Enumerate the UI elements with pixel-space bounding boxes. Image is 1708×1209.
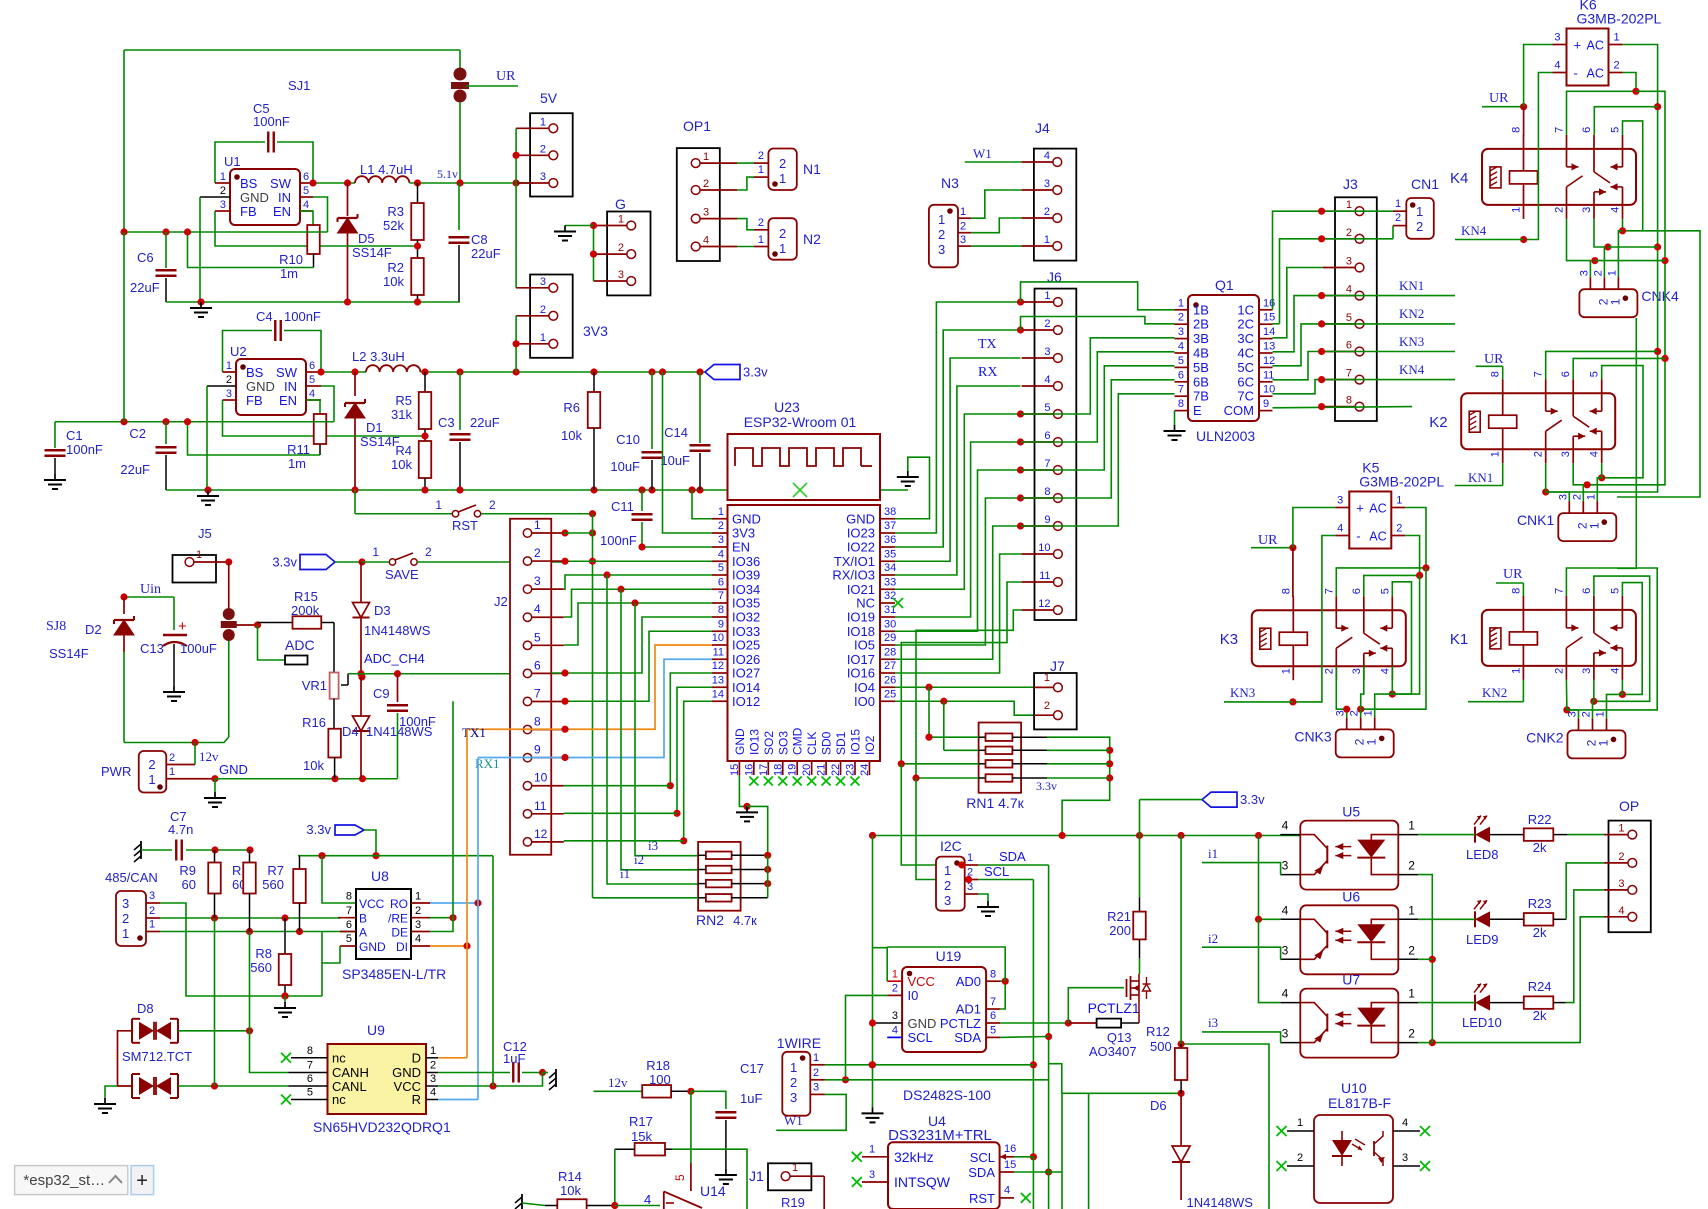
LED10 indicator	[1475, 995, 1490, 1011]
svg-text:3: 3	[618, 269, 624, 281]
wire K3 pin3 to CNK3.2	[1361, 666, 1364, 717]
Q1 pin 12 5C	[1259, 366, 1273, 368]
J6 pin 3	[1054, 354, 1063, 363]
svg-text:Uin: Uin	[140, 582, 161, 597]
diode D2 SS14F vertical	[123, 597, 125, 614]
svg-text:3: 3	[790, 1090, 797, 1105]
wire J6.1 to Q1.1B and left bus	[1021, 282, 1175, 310]
D8 top row to CANH	[178, 1030, 250, 1032]
svg-text:1: 1	[435, 498, 442, 512]
U9 pin 7 CANH	[289, 1072, 328, 1074]
svg-text:SW: SW	[276, 365, 298, 380]
svg-text:1: 1	[1044, 290, 1050, 302]
U23 pin 24 IO2	[868, 761, 870, 775]
U23 pin 36 IO22	[880, 546, 895, 548]
svg-text:4: 4	[1337, 523, 1343, 535]
left rail from top	[123, 232, 125, 422]
U23 pin 38 GND	[880, 518, 895, 520]
svg-text:2: 2	[1346, 227, 1352, 239]
svg-text:SS14F: SS14F	[49, 646, 89, 661]
svg-text:2: 2	[169, 752, 175, 764]
svg-text:4C: 4C	[1237, 346, 1254, 361]
wire K2 pin8 to UR	[1502, 366, 1504, 379]
CNK1 pin 2	[1582, 501, 1584, 513]
svg-text:IO17: IO17	[847, 652, 875, 667]
wire U8 /RE DE tie	[430, 917, 453, 919]
svg-text:1: 1	[1395, 198, 1401, 210]
svg-text:1: 1	[122, 926, 129, 941]
svg-text:EN: EN	[273, 204, 291, 219]
svg-text:3: 3	[1178, 326, 1184, 338]
wire K5 pin4 to KN3	[1293, 536, 1335, 702]
svg-text:2C: 2C	[1237, 317, 1254, 332]
svg-text:3: 3	[703, 207, 709, 219]
svg-text:1: 1	[1490, 451, 1502, 457]
U8 pin 2 /RE	[411, 917, 430, 919]
wire IO0 to J7.2 and RN1	[895, 701, 1034, 715]
svg-text:i1: i1	[1208, 846, 1218, 861]
U23 pin 29 IO5	[880, 644, 895, 646]
svg-text:1: 1	[1396, 495, 1402, 507]
wire K2 pin6 loop to CNK1.2	[1573, 358, 1665, 379]
ground at G connector	[565, 225, 594, 227]
J2 pin 1	[523, 529, 531, 537]
J6 pin 7	[1054, 466, 1063, 475]
K3 coil pin 1	[1292, 645, 1294, 680]
capacitor C10 10uF	[651, 372, 653, 449]
wire J6.5 to Q1.3B	[1021, 338, 1175, 414]
wire IO21 to J6.5	[895, 414, 1021, 589]
wire U23 GND38 to ground	[895, 457, 930, 519]
svg-text:2: 2	[489, 498, 496, 512]
U2 pin 1 BS	[223, 371, 237, 373]
K3 contact pins 6 3	[1363, 596, 1365, 633]
resistor R21 200	[1139, 836, 1141, 898]
485CAN pin 3	[146, 902, 160, 904]
svg-text:3: 3	[122, 896, 129, 911]
svg-text:4: 4	[1346, 284, 1352, 296]
svg-text:22uF: 22uF	[470, 415, 500, 430]
J6 pin 6	[1054, 438, 1063, 447]
svg-text:52k: 52k	[383, 218, 404, 233]
svg-text:UR: UR	[496, 69, 516, 84]
svg-text:1: 1	[540, 116, 546, 128]
K2 coil pin 1	[1502, 428, 1504, 463]
svg-text:500: 500	[1150, 1039, 1172, 1054]
svg-text:1: 1	[944, 863, 951, 878]
U9 pin 5 nc	[281, 1095, 291, 1105]
Q1 pin 3 3B	[1175, 338, 1189, 340]
svg-text:IN: IN	[284, 379, 297, 394]
1WIRE pin 3	[810, 1093, 825, 1095]
U8 pin 7 B	[338, 917, 356, 919]
wire gnd line to U8 GND	[321, 932, 323, 997]
svg-text:3V3: 3V3	[583, 323, 608, 339]
K2 contact pins 6 3	[1572, 379, 1574, 416]
svg-text:KN1: KN1	[1399, 278, 1424, 293]
svg-text:8: 8	[1346, 395, 1352, 407]
svg-text:2: 2	[148, 757, 155, 772]
svg-text:2: 2	[226, 374, 232, 386]
svg-text:2: 2	[1553, 668, 1565, 674]
svg-text:IO5: IO5	[854, 638, 875, 653]
U9 pin 4 R	[426, 1099, 438, 1101]
svg-text:KN4: KN4	[1399, 362, 1425, 377]
D8 left common to ground	[118, 1031, 133, 1086]
svg-text:2: 2	[938, 227, 945, 242]
svg-text:UR: UR	[1484, 352, 1504, 367]
net flag 3.3v mid	[1202, 792, 1237, 807]
J3 pin 3	[1355, 263, 1364, 272]
svg-text:IO19: IO19	[847, 610, 875, 625]
svg-text:3: 3	[1581, 207, 1593, 213]
svg-text:EN: EN	[279, 393, 297, 408]
svg-text:8: 8	[1178, 398, 1184, 410]
svg-text:8: 8	[990, 969, 996, 981]
wire K4 pin3 to CNK4.2	[1594, 219, 1604, 277]
svg-text:IO32: IO32	[732, 610, 760, 625]
feedback wire FB divider	[215, 211, 418, 246]
svg-text:SW: SW	[270, 176, 292, 191]
svg-text:IO12: IO12	[732, 694, 760, 709]
svg-text:IO2: IO2	[863, 735, 877, 755]
U23 pin 20 CLK	[811, 761, 813, 775]
CN1 pin 2	[1393, 225, 1406, 227]
Q1 pin 5 5B	[1175, 366, 1189, 368]
svg-text:3: 3	[944, 893, 951, 908]
svg-text:1uF: 1uF	[740, 1091, 762, 1106]
RN2 left wire row4	[593, 897, 699, 899]
U23 pin 5 IO39	[712, 574, 728, 576]
wire J2.3 to IO39	[564, 575, 712, 589]
svg-text:6: 6	[307, 1073, 313, 1085]
svg-text:ADC: ADC	[285, 637, 315, 653]
wire J6.12 down to RN1 SCL	[916, 610, 1022, 778]
svg-text:7: 7	[990, 996, 996, 1008]
svg-text:IO26: IO26	[732, 652, 760, 667]
capacitor C6 22uF	[165, 232, 167, 268]
CN1 pin 1	[1393, 210, 1406, 212]
U7 pin 1	[1398, 1002, 1418, 1004]
svg-text:3: 3	[869, 1169, 875, 1181]
svg-text:C13: C13	[140, 641, 164, 656]
N2 pin 1	[754, 246, 768, 248]
svg-text:OP1: OP1	[683, 118, 711, 134]
svg-text:2: 2	[944, 878, 951, 893]
U1 pin 4 EN	[300, 210, 313, 212]
svg-text:1B: 1B	[1193, 302, 1209, 317]
J6 pin 8	[1054, 494, 1063, 503]
svg-text:2B: 2B	[1193, 317, 1209, 332]
svg-text:22uF: 22uF	[120, 462, 150, 477]
svg-text:VCC: VCC	[908, 974, 935, 989]
svg-text:7: 7	[718, 590, 724, 602]
svg-text:1: 1	[148, 772, 155, 787]
svg-text:1: 1	[792, 1162, 798, 1174]
wire K5 pin3 loop to UR	[1293, 508, 1335, 548]
U23 pin 9 IO33	[712, 630, 728, 632]
U23 pin 11 IO26	[712, 658, 728, 660]
U23 pin 3 EN	[712, 546, 728, 548]
wire U9 VCC to 3.3v drop	[438, 1073, 543, 1087]
svg-text:IO27: IO27	[732, 666, 760, 681]
U9 pin 6 CANL	[289, 1085, 328, 1087]
U10 pin 1	[1277, 1126, 1287, 1136]
wire conn pin1 A row	[160, 931, 356, 933]
wire J6.11 down to RN1 SDA	[901, 582, 1021, 764]
svg-text:D6: D6	[1150, 1098, 1167, 1113]
svg-text:3: 3	[1337, 495, 1343, 507]
svg-text:7: 7	[534, 686, 541, 700]
svg-text:1: 1	[1597, 739, 1611, 746]
svg-text:VCC: VCC	[359, 897, 385, 911]
CNK3 pin 3	[1346, 717, 1348, 729]
U5 pin 4	[1280, 834, 1300, 836]
svg-text:Q13: Q13	[1107, 1030, 1132, 1045]
svg-text:LED9: LED9	[1466, 932, 1499, 947]
wire EN to R10	[300, 211, 313, 225]
CNK1 pin 3	[1568, 501, 1570, 513]
svg-text:6: 6	[1346, 340, 1352, 352]
potentiometer VR1	[333, 650, 335, 673]
capacitor C14 10uF	[699, 372, 701, 443]
svg-text:SJ8: SJ8	[46, 619, 66, 634]
svg-text:UR: UR	[1489, 91, 1509, 106]
ground U2	[207, 490, 209, 496]
U23 pin 27 IO16	[880, 672, 895, 674]
svg-text:15k: 15k	[631, 1129, 652, 1144]
N2 pin 2	[754, 229, 768, 231]
svg-text:3: 3	[540, 276, 546, 288]
svg-text:RX/IO3: RX/IO3	[832, 568, 875, 583]
svg-text:4: 4	[534, 602, 541, 616]
svg-text:4.7n: 4.7n	[168, 822, 193, 837]
wire K1 pin1 to KN2	[1522, 680, 1524, 702]
svg-text:2: 2	[779, 156, 786, 171]
green X mark on U23	[793, 483, 807, 497]
svg-text:5: 5	[1610, 127, 1622, 133]
svg-text:5: 5	[718, 562, 724, 574]
svg-text:5: 5	[303, 185, 309, 197]
U6 pin 2	[1398, 958, 1418, 960]
wire J2.11 row	[564, 812, 677, 814]
U2 pin 2 GND	[207, 385, 236, 387]
svg-text:3.3v: 3.3v	[743, 365, 768, 380]
wire N3.3 to J4.1	[971, 245, 1021, 247]
svg-text:8: 8	[1490, 371, 1502, 377]
K1 contact pins 6 3	[1593, 596, 1595, 633]
U23 pin 1 GND	[712, 518, 728, 520]
svg-text:2: 2	[149, 905, 155, 917]
U23 pin 15 GND	[738, 761, 740, 775]
svg-text:3: 3	[1560, 451, 1572, 457]
svg-text:C14: C14	[664, 425, 688, 440]
K2 contact pins 7 2	[1545, 379, 1547, 411]
U23 pin 6 IO34	[712, 588, 728, 590]
U23 pin 2 3V3	[712, 532, 728, 534]
wire EN to R11	[306, 400, 320, 414]
J6 pin 9	[1054, 522, 1063, 531]
svg-text:2: 2	[1571, 494, 1583, 500]
svg-text:4: 4	[303, 199, 309, 211]
CNK1 pin 1	[1596, 501, 1598, 513]
svg-text:2: 2	[1044, 318, 1050, 330]
wire IO5 to J6.8	[895, 498, 1021, 645]
svg-text:CANH: CANH	[332, 1065, 369, 1080]
svg-text:4: 4	[1282, 987, 1289, 1001]
capacitor C13 100uF polarized	[173, 597, 175, 630]
U23 pin 10 IO25	[712, 644, 728, 646]
svg-text:PCTLZ: PCTLZ	[940, 1016, 981, 1031]
K4 contact pins 5 4	[1622, 135, 1624, 167]
N1 pin 1	[754, 176, 768, 178]
U4 pin 15 SDA	[1000, 1171, 1014, 1173]
wire IO14 down to J2.11	[677, 687, 712, 813]
svg-text:IO21: IO21	[847, 582, 875, 597]
wire IO18 to J6.7	[895, 470, 1021, 631]
svg-text:TX: TX	[978, 337, 997, 352]
svg-text:1: 1	[1363, 710, 1375, 716]
svg-text:IO22: IO22	[847, 540, 875, 555]
svg-text:4: 4	[309, 388, 315, 400]
svg-text:2k: 2k	[1533, 925, 1547, 940]
svg-text:U9: U9	[367, 1022, 385, 1038]
svg-text:4: 4	[1402, 1117, 1408, 1129]
U4 pin 4 RST	[1000, 1197, 1014, 1199]
U19 pin 5 SDA	[986, 1036, 1000, 1038]
svg-text:5: 5	[990, 1025, 996, 1037]
K6 pin 3	[1553, 44, 1567, 46]
svg-text:AD0: AD0	[956, 974, 981, 989]
svg-text:GND: GND	[392, 1065, 421, 1080]
svg-text:10k: 10k	[383, 274, 404, 289]
svg-text:*esp32_st…: *esp32_st…	[23, 1172, 105, 1189]
resistor network RN2 4.7k	[698, 842, 741, 911]
svg-text:R8: R8	[255, 946, 272, 961]
svg-text:8: 8	[346, 891, 352, 903]
svg-text:CNK2: CNK2	[1526, 729, 1564, 745]
svg-text:nc: nc	[332, 1092, 346, 1107]
svg-text:10k: 10k	[391, 457, 412, 472]
svg-text:2: 2	[540, 143, 546, 155]
svg-text:GND: GND	[219, 762, 248, 777]
U23 pin 14 IO12	[712, 700, 728, 702]
svg-text:ADC_CH4: ADC_CH4	[364, 651, 425, 666]
U23 pin 23 IO15	[854, 761, 856, 775]
svg-text:PWR: PWR	[101, 764, 131, 779]
LED8 indicator	[1475, 827, 1490, 843]
GND rail bottom left	[215, 778, 398, 780]
svg-text:6: 6	[1581, 588, 1593, 594]
svg-text:R5: R5	[395, 393, 412, 408]
svg-text:4: 4	[718, 548, 724, 560]
svg-text:IO35: IO35	[732, 596, 760, 611]
wire K2 pin1 to KN1	[1502, 463, 1504, 485]
Q1 pin 11 6C	[1259, 381, 1273, 383]
svg-text:60: 60	[182, 877, 196, 892]
U23 pin 12 IO27	[712, 672, 728, 674]
svg-text:R24: R24	[1528, 979, 1552, 994]
svg-text:R7: R7	[267, 863, 284, 878]
capacitor C2 22uF	[165, 422, 167, 444]
wire Q1 6C to J3.6 KN3	[1273, 352, 1456, 380]
CNK2 pin 2	[1592, 718, 1594, 730]
svg-text:LED10: LED10	[1462, 1015, 1502, 1030]
svg-text:BS: BS	[240, 176, 258, 191]
svg-text:C17: C17	[740, 1061, 764, 1076]
svg-text:2: 2	[1554, 207, 1566, 213]
svg-text:10k: 10k	[303, 758, 324, 773]
svg-text:3.3v: 3.3v	[306, 822, 331, 837]
svg-text:1: 1	[415, 891, 421, 903]
svg-text:2: 2	[1592, 270, 1604, 276]
svg-text:1C: 1C	[1237, 302, 1254, 317]
svg-text:4: 4	[703, 235, 709, 247]
svg-text:i2: i2	[634, 852, 644, 867]
U19 pin 6 PCTLZ	[986, 1022, 1000, 1024]
svg-text:560: 560	[262, 877, 284, 892]
U23 pin 37 IO23	[880, 532, 895, 534]
svg-text:8: 8	[307, 1045, 313, 1057]
staircase verticals to RN2	[607, 575, 698, 884]
wire SAVE row to IO36	[564, 560, 712, 562]
svg-text:2: 2	[540, 304, 546, 316]
CNK2 pin 1	[1606, 718, 1608, 730]
svg-text:23: 23	[845, 764, 857, 776]
D8 bottom row to CANL	[178, 1085, 289, 1087]
feedback wire FB divider U2	[223, 400, 426, 436]
svg-text:27: 27	[884, 660, 896, 672]
K4 contact pins 7 2	[1566, 135, 1568, 167]
svg-text:3: 3	[1581, 668, 1593, 674]
svg-text:4: 4	[1610, 207, 1622, 213]
svg-text:3: 3	[149, 890, 155, 902]
svg-text:I2C: I2C	[940, 838, 962, 854]
svg-text:U23: U23	[774, 399, 800, 415]
svg-text:6: 6	[534, 658, 541, 672]
svg-text:8: 8	[1044, 486, 1050, 498]
svg-text:IO0: IO0	[854, 694, 875, 709]
U23 pin 4 IO36	[712, 560, 728, 562]
svg-text:2: 2	[718, 520, 724, 532]
svg-text:33: 33	[884, 576, 896, 588]
Q1 pin 2 2B	[1175, 323, 1189, 325]
svg-text:IO14: IO14	[732, 680, 760, 695]
svg-text:3: 3	[813, 1082, 819, 1094]
wire J6.7 to Q1.5B	[1021, 366, 1175, 470]
svg-text:12v: 12v	[199, 749, 219, 764]
svg-text:1: 1	[149, 919, 155, 931]
svg-text:J7: J7	[1050, 658, 1065, 674]
svg-text:J4: J4	[1035, 120, 1050, 136]
svg-text:-: -	[1356, 529, 1360, 544]
wire IO4 to J7.1 and RN1	[895, 686, 1034, 688]
U19 PCTLZ wire	[1000, 1022, 1068, 1024]
K6 pin 4	[1553, 72, 1567, 74]
svg-text:5: 5	[309, 374, 315, 386]
svg-text:100nF: 100nF	[253, 114, 290, 129]
svg-text:U5: U5	[1342, 804, 1360, 820]
svg-text:6: 6	[303, 171, 309, 183]
svg-text:+: +	[178, 618, 187, 635]
svg-text:37: 37	[884, 520, 896, 532]
svg-text:5: 5	[534, 630, 541, 644]
svg-text:FB: FB	[240, 204, 257, 219]
svg-text:29: 29	[884, 632, 896, 644]
svg-text:100nF: 100nF	[66, 442, 103, 457]
svg-text:9: 9	[1263, 398, 1269, 410]
wire N3.1 to J4.3	[971, 190, 1021, 218]
